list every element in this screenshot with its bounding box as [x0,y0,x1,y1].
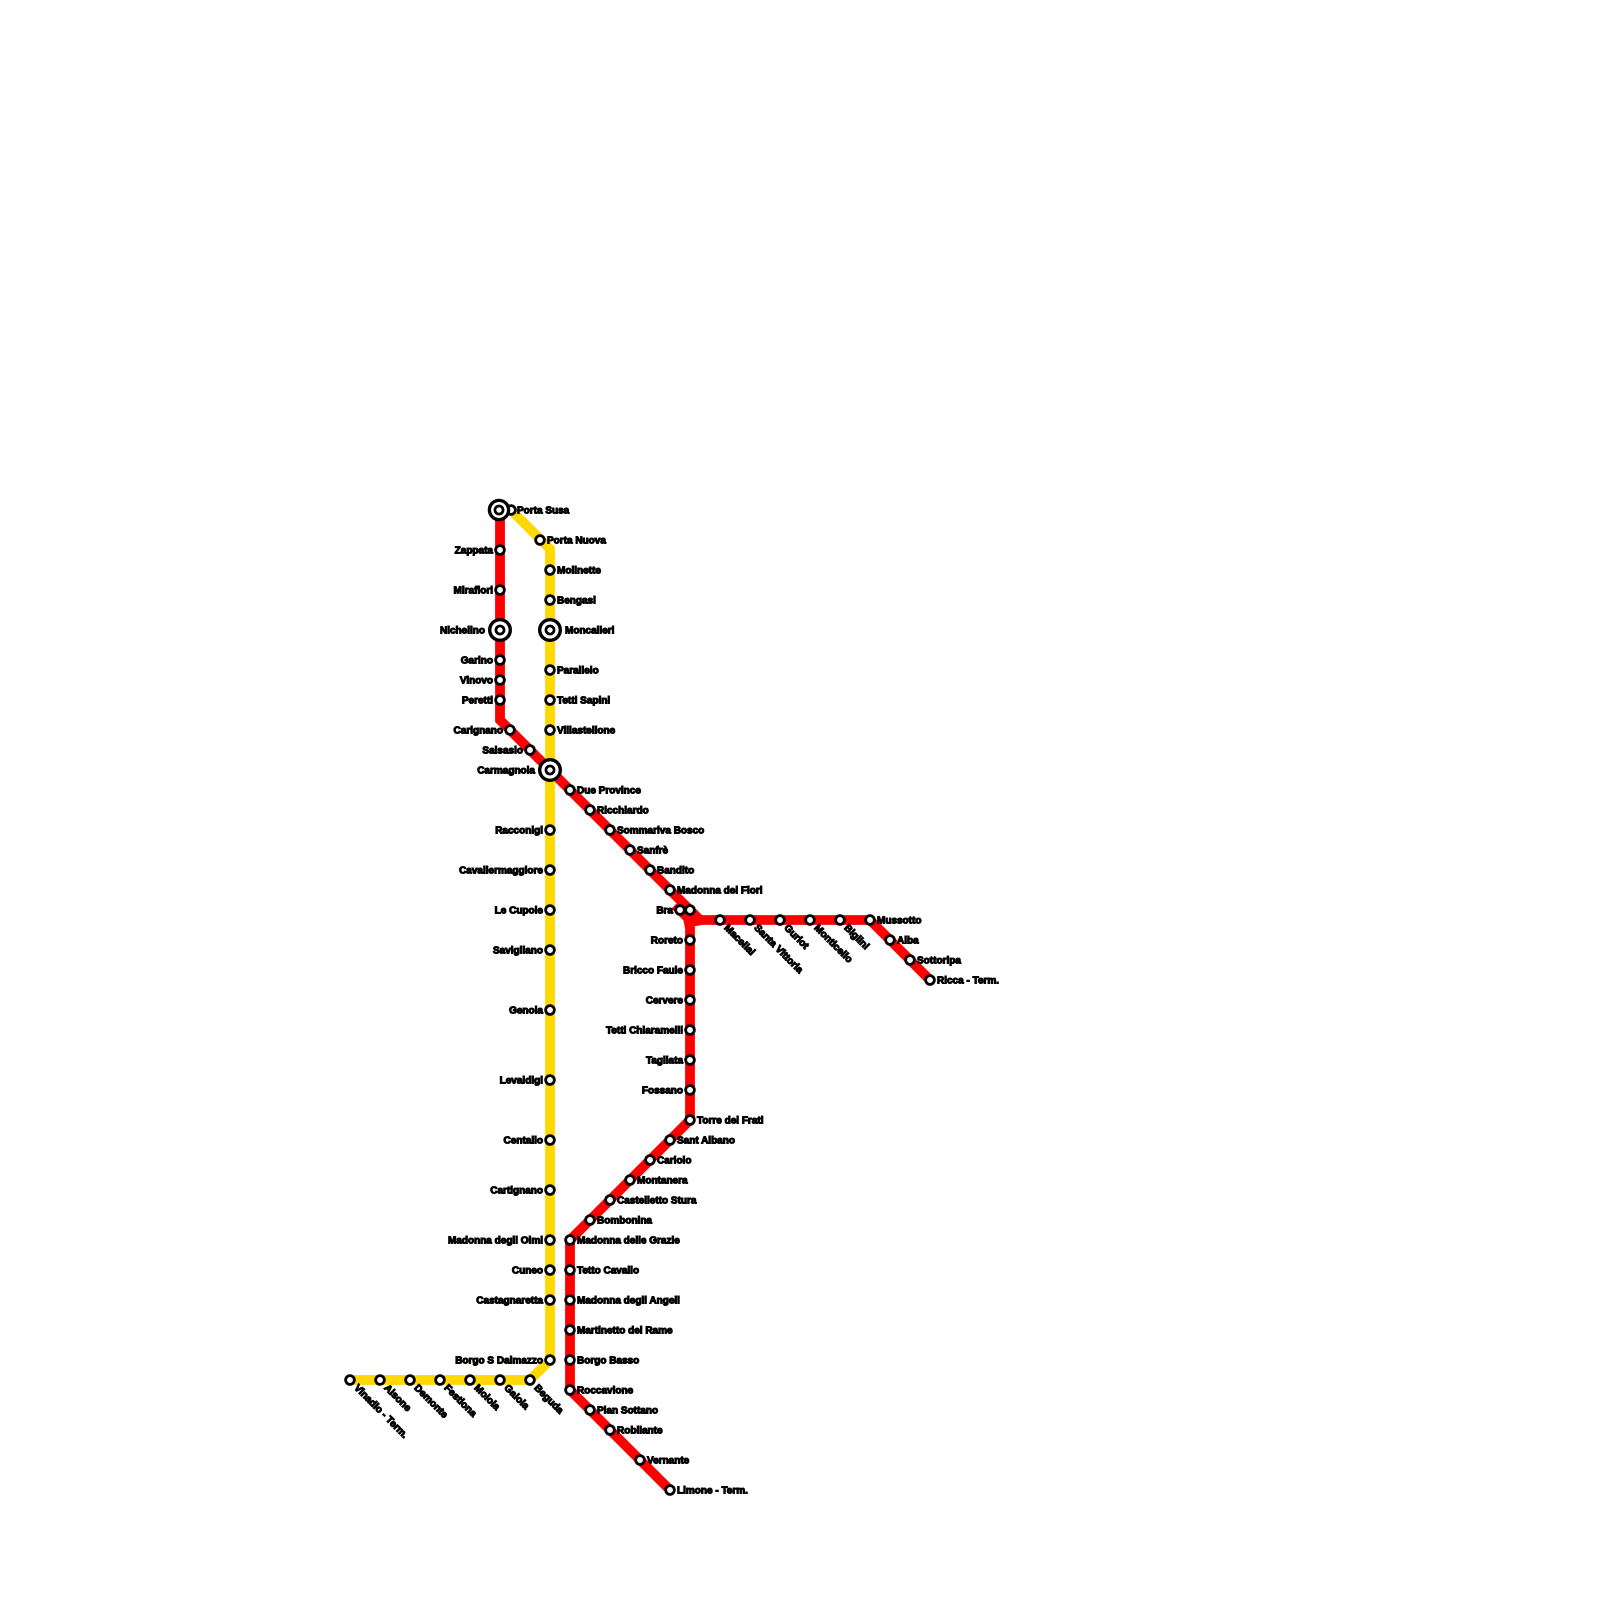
station Bandito [646,866,655,875]
station Martinetto del Rame [566,1326,575,1335]
svg-text:Castagnaretta: Castagnaretta [476,1296,543,1307]
station Savigliano [546,946,555,955]
svg-text:Tagliata: Tagliata [646,1056,683,1067]
station Roccavione [566,1386,575,1395]
interchange Porta Susa [489,500,508,519]
svg-text:Porta Nuova: Porta Nuova [547,536,606,547]
station Cartignano [546,1186,555,1195]
svg-text:Roccavione: Roccavione [577,1386,634,1397]
svg-text:Roreto: Roreto [651,936,683,947]
station Vinadio - Term. [346,1376,355,1385]
svg-text:Tetto Cavallo: Tetto Cavallo [577,1266,639,1277]
station Borgo Basso [566,1356,575,1365]
svg-text:Centallo: Centallo [504,1136,543,1147]
station Cervere [686,996,695,1005]
station Roreto [686,936,695,945]
station Tetto Cavallo [566,1266,575,1275]
svg-text:Parallelo: Parallelo [557,666,599,677]
station Madonna delle Grazie [566,1236,575,1245]
station Alba [886,936,895,945]
station Porta Nuova [536,536,545,545]
station Biglini [836,916,845,925]
svg-text:Robilante: Robilante [617,1426,663,1437]
station Sommariva Bosco [606,826,615,835]
station Fossano [686,1086,695,1095]
station Pian Sottano [586,1406,595,1415]
svg-text:Bricco Faule: Bricco Faule [623,966,683,977]
interchange Nichelino [490,620,511,641]
station Due Province [566,786,575,795]
interchange Carmagnola [540,760,561,781]
station Macellai [716,916,725,925]
svg-text:Sant Albano: Sant Albano [677,1136,735,1147]
svg-text:Tetti Chiaramelli: Tetti Chiaramelli [606,1026,683,1037]
station Sottoripa [906,956,915,965]
station Santa Vittoria [746,916,755,925]
station Bra (two platforms) [676,906,685,915]
svg-text:Cervere: Cervere [646,996,684,1007]
station Bengasi [546,596,555,605]
svg-text:Salsasio: Salsasio [482,746,523,757]
station Cuneo [546,1266,555,1275]
svg-text:Martinetto del Rame: Martinetto del Rame [577,1326,673,1337]
station Ricca - Term. [926,976,935,985]
svg-text:Molinette: Molinette [557,566,601,577]
station Ricchiardo [586,806,595,815]
station Torre dei Frati [686,1116,695,1125]
station Guriot [776,916,785,925]
station Demonte [406,1376,415,1385]
svg-text:Garino: Garino [461,656,493,667]
station Garino [496,656,505,665]
station Cavallermaggiore [546,866,555,875]
svg-text:Due Province: Due Province [577,786,641,797]
svg-text:Madonna degli Angeli: Madonna degli Angeli [577,1296,680,1307]
station Salsasio [526,746,535,755]
svg-text:Carmagnola: Carmagnola [477,766,535,777]
station Parallelo [546,666,555,675]
station Montanera [626,1176,635,1185]
svg-text:Borgo S Dalmazzo: Borgo S Dalmazzo [455,1356,543,1367]
station Festiona [436,1376,445,1385]
station Robilante [606,1426,615,1435]
station Peretti [496,696,505,705]
station Beguda [526,1376,535,1385]
svg-text:Le Cupole: Le Cupole [495,906,544,917]
svg-text:Genola: Genola [509,1006,543,1017]
station Madonna degli Angeli [566,1296,575,1305]
svg-text:Bandito: Bandito [657,866,694,877]
station Villastellone [546,726,555,735]
station Madonna degli Olmi [546,1236,555,1245]
station Genola [546,1006,555,1015]
svg-text:Sottoripa: Sottoripa [917,956,961,967]
station Aisone [376,1376,385,1385]
svg-text:Castelletto Stura: Castelletto Stura [617,1196,697,1207]
station Tetti Chiaramelli [686,1026,695,1035]
svg-text:Fossano: Fossano [642,1086,683,1097]
svg-text:Sanfrè: Sanfrè [637,846,669,857]
station Bricco Faule [686,966,695,975]
station Molinette [546,566,555,575]
svg-text:Porta Susa: Porta Susa [517,506,570,517]
svg-text:Alba: Alba [897,936,919,947]
svg-text:Peretti: Peretti [462,696,493,707]
station Mussotto [866,916,875,925]
svg-text:Montanera: Montanera [637,1176,688,1187]
svg-text:Nichelino: Nichelino [440,626,485,637]
svg-text:Cariolo: Cariolo [657,1156,691,1167]
svg-text:Carignano: Carignano [454,726,503,737]
svg-text:Moncalieri: Moncalieri [565,626,615,637]
svg-text:Tetti Sapini: Tetti Sapini [557,696,610,707]
svg-text:Limone - Term.: Limone - Term. [677,1486,748,1497]
svg-text:Vinovo: Vinovo [460,676,493,687]
svg-text:Madonna degli Olmi: Madonna degli Olmi [448,1236,543,1247]
station Madonna dei Fiori [666,886,675,895]
svg-text:Borgo Basso: Borgo Basso [577,1356,639,1367]
svg-text:Ricchiardo: Ricchiardo [597,806,649,817]
station Monticello [806,916,815,925]
svg-text:Levaldigi: Levaldigi [500,1076,544,1087]
station Limone - Term. [666,1486,675,1495]
svg-text:Sommariva Bosco: Sommariva Bosco [617,826,704,837]
svg-text:Bombonina: Bombonina [597,1216,652,1227]
station Bombonina [586,1216,595,1225]
svg-text:Racconigi: Racconigi [495,826,543,837]
yellow line Torino Porta Susa - Cuneo - Vinadio [350,509,550,1380]
station Vernante [636,1456,645,1465]
svg-text:Ricca - Term.: Ricca - Term. [937,976,999,987]
svg-text:Cuneo: Cuneo [512,1266,543,1277]
station Sant Albano [666,1136,675,1145]
station Sanfrè [626,846,635,855]
svg-text:Cartignano: Cartignano [490,1186,543,1197]
svg-text:Mirafiori: Mirafiori [454,586,494,597]
station Centallo [546,1136,555,1145]
svg-text:Bra: Bra [656,906,673,917]
station Vinovo [496,676,505,685]
svg-text:Savigliano: Savigliano [493,946,543,957]
svg-text:Cavallermaggiore: Cavallermaggiore [459,866,543,877]
station circle Porta Susa yellow platform [507,506,516,515]
station Borgo S Dalmazzo [546,1356,555,1365]
svg-text:Torre dei Frati: Torre dei Frati [697,1116,764,1127]
station Cariolo [646,1156,655,1165]
station Mirafiori [496,586,505,595]
station Levaldigi [546,1076,555,1085]
station Moiola [466,1376,475,1385]
junction filler at Bra [680,903,702,928]
svg-text:Zappata: Zappata [455,546,494,557]
svg-text:Pian Sottano: Pian Sottano [597,1406,658,1417]
svg-text:Vernante: Vernante [647,1456,690,1467]
station Zappata [496,546,505,555]
svg-text:Mussotto: Mussotto [877,916,921,927]
svg-text:Bengasi: Bengasi [557,596,596,607]
red line Torino Porta Susa - Bra - Alba - Ricca [500,505,932,982]
station Le Cupole [546,906,555,915]
red line Bra - Fossano - Cuneo - Limone [570,905,690,1490]
svg-text:Villastellone: Villastellone [557,726,616,737]
station Racconigi [546,826,555,835]
station Tagliata [686,1056,695,1065]
station Castagnaretta [546,1296,555,1305]
station Carignano [506,726,515,735]
svg-text:Madonna dei Fiori: Madonna dei Fiori [677,886,763,897]
interchange Moncalieri [540,620,561,641]
station Tetti Sapini [546,696,555,705]
station Gaiola [496,1376,505,1385]
station Castelletto Stura [606,1196,615,1205]
svg-text:Madonna delle Grazie: Madonna delle Grazie [577,1236,680,1247]
